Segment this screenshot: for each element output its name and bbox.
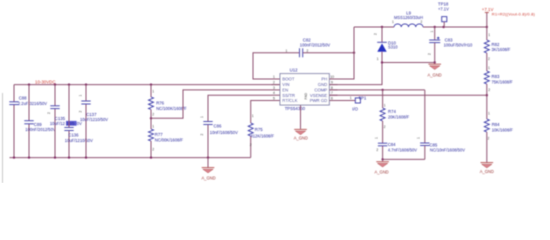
op-amp U12 body (TPS54360 regulator) — [280, 74, 329, 105]
svg-text:R75: R75 — [255, 127, 263, 132]
svg-text:100nF/2012/50V: 100nF/2012/50V — [25, 127, 56, 132]
R76 pin 1 number — [152, 90, 154, 94]
R84 reference label — [492, 122, 500, 127]
resistor R75 — [248, 123, 253, 158]
R74 pin 1 number — [384, 103, 386, 107]
U12 pin 8 COMP name — [314, 88, 327, 93]
wire: BOOT to C82 — [253, 53, 299, 79]
L9 reference label — [406, 10, 411, 15]
C137 reference label — [86, 112, 97, 117]
junction dot at D10 tap — [381, 26, 383, 28]
svg-text:SS/TR: SS/TR — [282, 93, 295, 98]
D10 reference label — [388, 40, 396, 45]
C84 value label — [388, 148, 417, 153]
svg-text:2: 2 — [273, 81, 275, 85]
test point TP18 — [442, 17, 447, 27]
junction dots on ground rail — [13, 156, 209, 158]
svg-text:PWR GD: PWR GD — [310, 98, 328, 103]
R74 pin 2 number — [384, 125, 386, 129]
capacitor C135 — [50, 85, 59, 158]
ground A_GND (U12 pad) — [294, 129, 307, 134]
svg-text:2: 2 — [488, 88, 490, 92]
svg-text:1: 1 — [488, 66, 490, 70]
TP18 reference label — [438, 2, 449, 7]
C135 reference label — [55, 116, 66, 121]
U12 pin 1 BOOT name — [282, 77, 295, 82]
diode D10 — [377, 27, 387, 63]
svg-text:2: 2 — [376, 148, 378, 152]
svg-text:R1=R2((Vout-0.8)/0.8): R1=R2((Vout-0.8)/0.8) — [492, 12, 536, 17]
capacitor C86 — [203, 122, 212, 158]
R82 pin 2 number — [488, 57, 490, 61]
R82 value label — [492, 47, 511, 52]
svg-text:1: 1 — [488, 33, 490, 37]
C83 value label — [444, 42, 473, 47]
svg-text:75K/1608/F: 75K/1608/F — [492, 79, 514, 84]
svg-text:2: 2 — [421, 20, 423, 24]
svg-text:A_GND: A_GND — [201, 176, 215, 181]
svg-text:2.2uF/3216/50V: 2.2uF/3216/50V — [18, 101, 47, 106]
U12 pin 6 PWR GD name — [310, 98, 328, 103]
R83 reference label — [492, 74, 500, 79]
feedback formula note — [492, 12, 536, 17]
wire: C82 to PH riser — [303, 52, 354, 54]
A_GND label (left rail) — [201, 176, 215, 181]
svg-text:2: 2 — [250, 143, 252, 147]
ground A_GND (left rail) — [202, 158, 215, 173]
R75 value label — [251, 134, 275, 139]
D10 pin 2 number — [374, 33, 378, 35]
C86 value label — [210, 130, 238, 135]
resistor R83 — [484, 71, 489, 119]
wire: switch node to L9 — [354, 26, 394, 28]
inductor L9 — [394, 24, 423, 27]
C86 pin 1 number — [200, 116, 204, 118]
C136 value label — [65, 138, 93, 143]
svg-text:8: 8 — [331, 86, 333, 90]
U12 pin 2 VIN name — [282, 82, 289, 87]
wire: bottom A_GND rail — [10, 157, 251, 159]
svg-text:1: 1 — [377, 57, 379, 61]
R74 reference label — [388, 109, 396, 114]
capacitor C83 — [429, 27, 440, 63]
svg-text:2: 2 — [152, 113, 154, 117]
C84 pin 1 number — [374, 137, 378, 139]
C135 pin 2 number — [47, 112, 51, 114]
C137 value label — [80, 117, 108, 122]
U12 pin 11 PAD name — [304, 92, 308, 99]
svg-text:1: 1 — [392, 20, 394, 24]
junction node feedback divider — [486, 94, 488, 96]
svg-text:+7.1V: +7.1V — [438, 6, 449, 11]
TP1 pin 1 number — [350, 96, 352, 100]
svg-text:NC/00K/1608/F: NC/00K/1608/F — [155, 137, 184, 142]
R75 reference label — [255, 127, 263, 132]
R83 pin 1 number — [488, 66, 490, 70]
svg-text:NC/10nF/1608/50V: NC/10nF/1608/50V — [430, 148, 465, 153]
svg-text:1: 1 — [152, 125, 154, 129]
svg-text:I/O: I/O — [352, 106, 358, 111]
junction nodes on anode net — [381, 61, 436, 63]
svg-text:1: 1 — [374, 137, 378, 139]
test point TP1 — [355, 98, 360, 103]
U12 pin 5 RT/CLK name — [282, 98, 297, 103]
resistor R77 — [149, 129, 154, 158]
resistor R74 — [380, 90, 385, 143]
svg-text:2: 2 — [374, 33, 378, 35]
svg-text:MSS1260/33uH: MSS1260/33uH — [394, 15, 423, 20]
TP1 net label I/O — [352, 106, 358, 111]
svg-text:10/5: 10/5 — [66, 121, 75, 126]
wire: COMP net — [329, 89, 425, 91]
C83 reference label — [445, 37, 453, 42]
U12 pin 3 EN name — [282, 88, 288, 93]
svg-text:10uF/12: 10uF/12 — [50, 121, 66, 126]
A_GND label (U12 pad) — [294, 135, 308, 140]
svg-text:10-30VDC: 10-30VDC — [35, 79, 56, 84]
C85 value label — [430, 148, 465, 153]
C88 value label — [18, 101, 47, 106]
C85 reference label — [429, 142, 437, 147]
svg-text:GND: GND — [318, 82, 328, 87]
R77 pin 1 number — [152, 125, 154, 129]
wire: SS/TR net — [208, 95, 272, 121]
svg-text:PAD: PAD — [304, 92, 308, 99]
R77 pin 2 number — [152, 148, 154, 152]
C135 value label with selection highlight — [50, 121, 82, 126]
svg-text:2: 2 — [152, 148, 154, 152]
svg-text:A_GND: A_GND — [294, 135, 308, 140]
L9 pin numbers — [392, 20, 423, 24]
TP18 net label +7.1V — [438, 6, 449, 11]
wire: VSENSE feedback net — [329, 94, 487, 96]
svg-text:1: 1 — [417, 137, 421, 139]
A_GND label (C84/C85) — [375, 170, 389, 175]
C82 reference label — [303, 38, 311, 43]
svg-text:S310: S310 — [388, 45, 398, 50]
ground A_GND (R84) — [481, 163, 494, 168]
resistor R82 — [484, 27, 489, 71]
svg-text:1: 1 — [200, 116, 204, 118]
svg-text:3: 3 — [273, 86, 275, 90]
wire: +7.1V output rail — [423, 26, 487, 28]
C85 pin 1 number — [417, 137, 421, 139]
svg-text:VSENSE: VSENSE — [310, 93, 328, 98]
svg-text:C86: C86 — [214, 123, 222, 128]
ground A_GND (C83/D10) — [428, 63, 441, 70]
R84 pin 2 number — [488, 137, 490, 141]
A_GND label (R84) — [480, 169, 494, 174]
svg-text:A_GND: A_GND — [375, 170, 389, 175]
svg-text:7: 7 — [331, 91, 333, 95]
svg-text:1: 1 — [488, 112, 490, 116]
R82 pin 1 number — [488, 33, 490, 37]
TP1 reference label — [358, 96, 366, 101]
node 10-30VDC net label — [35, 79, 56, 84]
svg-text:1: 1 — [286, 49, 288, 53]
R84 pin 1 number — [488, 112, 490, 116]
svg-text:PH: PH — [321, 77, 327, 82]
U12 pin 10 PH name — [321, 77, 327, 82]
svg-text:RT/CLK: RT/CLK — [282, 98, 297, 103]
decorative frame edge omitted marker — [2, 93, 4, 183]
svg-text:1: 1 — [273, 75, 275, 79]
svg-text:2: 2 — [488, 137, 490, 141]
U12 right pin stubs — [329, 79, 337, 101]
C89 reference label — [34, 122, 42, 127]
svg-text:20K/1608/F: 20K/1608/F — [388, 114, 410, 119]
wire: EN net to R76-R77 divider — [151, 90, 272, 118]
svg-text:TP1: TP1 — [358, 96, 366, 101]
capacitor C85 — [420, 90, 429, 159]
svg-text:C85: C85 — [429, 142, 437, 147]
junction node C84 ground — [381, 158, 383, 160]
junction node C82/PH — [353, 52, 355, 54]
node +7.1V net flag — [485, 13, 489, 28]
capacitor C82 — [300, 48, 303, 57]
svg-text:2: 2 — [307, 49, 309, 53]
C137 pin 1 number — [79, 95, 83, 97]
svg-text:VIN: VIN — [282, 82, 289, 87]
svg-text:A_GND: A_GND — [480, 169, 494, 174]
U12 pin 7 VSENSE name — [310, 93, 328, 98]
wire: U12 GND pin 9 to anode node — [329, 63, 382, 85]
C83 pin 2 number — [427, 53, 431, 55]
svg-text:100uF/50V/H10: 100uF/50V/H10 — [444, 42, 473, 47]
wire: C84-C85 ground link — [383, 158, 425, 160]
svg-text:10K/1608/F: 10K/1608/F — [492, 127, 514, 132]
svg-text:1: 1 — [384, 103, 386, 107]
C82 value label — [300, 42, 331, 47]
svg-text:2: 2 — [200, 134, 204, 136]
svg-text:5: 5 — [273, 96, 275, 100]
wire: U12 PAD pin 11 to ground — [300, 105, 302, 129]
C84 reference label — [388, 142, 396, 147]
svg-text:A_GND: A_GND — [428, 72, 442, 77]
+7.1V net label text — [482, 7, 494, 12]
U12 left pin numbers — [273, 75, 275, 101]
D10 pin 1 number — [377, 57, 379, 61]
R77 reference label — [155, 132, 163, 137]
C88 reference label — [19, 96, 27, 101]
D10 value label S310 — [388, 45, 398, 50]
capacitor C84 — [378, 143, 387, 159]
A_GND label (C83/D10) — [428, 72, 442, 77]
junction node R76/R77/EN — [150, 117, 152, 119]
svg-text:1: 1 — [79, 95, 83, 97]
svg-text:10uF/1210/50V: 10uF/1210/50V — [65, 138, 93, 143]
R76 pin 2 number — [152, 113, 154, 117]
svg-text:3K/1608/F: 3K/1608/F — [492, 47, 511, 52]
R75 pin 2 number — [250, 143, 252, 147]
svg-text:10uF/1210/50V: 10uF/1210/50V — [80, 117, 108, 122]
C89 value label — [25, 127, 56, 132]
capacitor C136 — [64, 85, 73, 158]
L9 value label — [394, 15, 423, 20]
junction dots on output rail — [434, 26, 488, 28]
svg-text:9: 9 — [331, 81, 333, 85]
C83 pin 1 number — [430, 31, 434, 33]
U12 reference label — [290, 67, 298, 72]
svg-text:R76: R76 — [156, 100, 164, 105]
wire: D10 anode to A_GND and C83 — [382, 62, 435, 64]
wire: 10-30VDC input rail — [14, 84, 280, 86]
svg-text:10nF/1608/50V: 10nF/1608/50V — [210, 130, 238, 135]
C136 reference label — [68, 132, 79, 137]
R83 value label — [492, 79, 514, 84]
capacitor C88 — [9, 85, 18, 158]
svg-text:4: 4 — [273, 91, 275, 95]
C137 pin 2 number — [79, 111, 83, 113]
R77 value label — [155, 137, 184, 142]
R83 pin 2 number — [488, 88, 490, 92]
U12 pin 4 SS/TR name — [282, 93, 295, 98]
U12 part number label TPS54360 — [285, 106, 306, 111]
svg-text:100nF/2012/50V: 100nF/2012/50V — [300, 42, 331, 47]
C82 pin numbers — [286, 49, 309, 53]
U12 right pin numbers — [330, 75, 334, 101]
wire: PWR GD net to TP1 — [338, 100, 356, 102]
svg-text:412K/1608/F: 412K/1608/F — [251, 134, 275, 139]
svg-text:6: 6 — [331, 96, 333, 100]
C84 pin 2 number — [376, 148, 378, 152]
svg-text:1: 1 — [252, 114, 254, 118]
svg-text:U12: U12 — [290, 67, 298, 72]
capacitor C137 — [81, 85, 90, 158]
wire: PH pin to switch node riser — [329, 27, 354, 79]
svg-text:1: 1 — [350, 96, 352, 100]
R75 pin 1 number — [252, 114, 254, 118]
resistor R84 — [484, 119, 489, 162]
svg-text:4.7nF/1608/50V: 4.7nF/1608/50V — [388, 148, 417, 153]
junction node COMP/R74 — [381, 89, 383, 91]
capacitor C89 — [24, 85, 33, 158]
R82 reference label — [492, 42, 500, 47]
svg-text:2: 2 — [488, 57, 490, 61]
R74 value label — [388, 114, 410, 119]
resistor R76 — [149, 85, 154, 129]
wire: RT/CLK net — [251, 101, 272, 124]
svg-text:EN: EN — [282, 88, 288, 93]
svg-text:1: 1 — [430, 31, 434, 33]
R84 value label — [492, 127, 514, 132]
svg-text:C88: C88 — [19, 96, 27, 101]
U12 pin 9 GND name — [318, 82, 328, 87]
svg-text:2: 2 — [47, 112, 51, 114]
C86 pin 2 number — [200, 134, 204, 136]
svg-text:2: 2 — [384, 125, 386, 129]
U12 left pin stubs — [272, 79, 281, 101]
C86 reference label — [214, 123, 222, 128]
svg-text:10: 10 — [330, 75, 334, 79]
svg-text:TPS54360: TPS54360 — [285, 106, 306, 111]
junction dots on input rail — [28, 83, 152, 85]
svg-text:1: 1 — [152, 90, 154, 94]
svg-text:2: 2 — [79, 111, 83, 113]
svg-text:R77: R77 — [155, 132, 163, 137]
R76 reference label — [156, 100, 164, 105]
svg-text:BOOT: BOOT — [282, 77, 295, 82]
svg-text:C84: C84 — [388, 142, 396, 147]
R76 value label — [156, 106, 187, 111]
svg-text:C136: C136 — [68, 132, 79, 137]
svg-text:COMP: COMP — [314, 88, 327, 93]
svg-text:2: 2 — [427, 53, 431, 55]
ground A_GND (C84/C85) — [376, 159, 389, 167]
